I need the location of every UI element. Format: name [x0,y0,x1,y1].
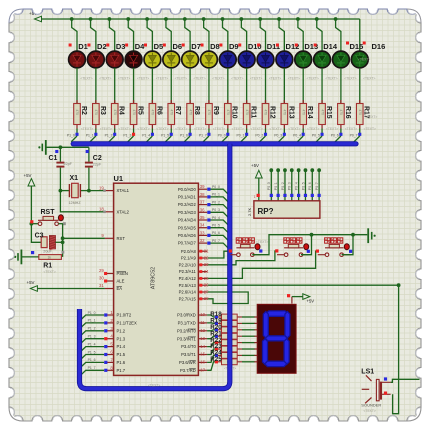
button1 mode key [236,244,260,257]
bus vertical right [80,144,230,389]
pin stub P2.3 [198,271,207,273]
svg-text:P3.1/TXD: P3.1/TXD [178,321,196,326]
ground symbol (crystal caps) [38,146,40,148]
svg-text:31: 31 [99,283,104,288]
wire tap diagonal P0_3 [279,136,285,142]
LED D12 [276,51,293,68]
wire D10 to R11 [246,68,248,104]
wire ground to R1 [22,256,39,258]
wire R14 to tap [302,129,304,137]
svg-text:P2.1/A9: P2.1/A9 [181,256,197,261]
square RP pin4 [283,194,286,197]
7seg pin stub 2 [254,322,257,324]
wire rail drop D11 [260,19,265,51]
svg-text:P0_5: P0_5 [212,224,220,228]
resistor R18 [215,314,242,320]
svg-text:D14: D14 [323,42,338,51]
wire RP pin2 [270,172,272,201]
svg-text:P1_5: P1_5 [161,134,169,138]
wire P3.6 to R24 [207,355,215,362]
wire RP pin7 [304,172,306,201]
power +5V arrow display [303,294,310,300]
resistor R8 [187,100,194,129]
wire P2.5 to sounder [207,285,398,414]
svg-text:D15: D15 [350,42,364,51]
svg-text:<TEXT>: <TEXT> [307,127,319,131]
junction rail dot 15 [334,17,338,21]
square button3 right pin [349,250,352,253]
LED D15 [333,51,350,68]
svg-text:XTAL2: XTAL2 [117,209,130,214]
svg-text:D7: D7 [191,42,201,51]
7seg segment B [285,312,290,338]
ground symbol (R1) [14,256,16,258]
svg-text:20uF: 20uF [43,250,52,254]
wire rail drop D14 [317,19,322,51]
ground symbol (buttons) [367,228,369,243]
svg-text:P0_2: P0_2 [255,134,263,138]
resistor R20 [215,327,242,333]
svg-text:C2: C2 [93,155,102,162]
wire rail drop D5 [147,19,152,51]
svg-text:21: 21 [204,249,209,254]
wire D13 to R14 [302,68,304,104]
svg-text:<TEXT>: <TEXT> [344,77,356,81]
square tap P1_0 [75,133,78,136]
svg-text:<TEXT>: <TEXT> [175,77,187,81]
wire P0.1 to bus [207,197,229,203]
square tap P1_3 [132,133,135,136]
square P2.3 pin [199,270,202,273]
square RP pin3 [277,194,280,197]
pin stub P1.4 [107,346,114,348]
pin stub P2.7 [198,298,207,300]
svg-text:P2.7/A15: P2.7/A15 [179,296,197,301]
svg-text:P1.7: P1.7 [117,368,126,373]
LED D14 origin square [314,44,317,47]
LED D4 [125,51,142,68]
square C2 pin [86,150,89,153]
wire P0.6 to bus [207,235,229,241]
junction dot RST net b [61,240,65,244]
square P1.7 pin [104,369,107,372]
svg-text:<TEXT>: <TEXT> [148,384,160,388]
junction rail dot 9 [221,17,225,21]
wire P3.2 to R20 [207,330,215,331]
resistor R17 [356,100,363,129]
svg-text:P0_6: P0_6 [308,182,312,190]
svg-text:<TEXT>: <TEXT> [364,409,376,413]
square RP pin6 [297,194,300,197]
svg-text:<TEXT>: <TEXT> [119,127,131,131]
junction dot C1 top [59,145,63,149]
wire tap diagonal P0_5 [316,136,322,142]
LED D10 [238,51,255,68]
junction dot RP pin3 [276,168,280,172]
junction dot sounder wire [397,283,401,287]
square tap P0_3 [283,133,286,136]
svg-text:R16: R16 [344,106,351,119]
square ALE pin [104,279,107,282]
square XTAL2 pin [103,211,106,214]
wire R16 to tap [340,129,342,137]
svg-text:P1_1: P1_1 [86,134,94,138]
svg-text:D16: D16 [372,42,386,51]
svg-text:R7: R7 [174,106,181,115]
svg-text:1: 1 [254,195,256,199]
wire sounder top terminal [391,379,420,382]
square sounder top pin [384,377,387,380]
wire EA to +5V [37,288,105,290]
svg-text:<TEXT>: <TEXT> [156,127,168,131]
wire P0.2 to bus [207,205,229,211]
wire tap diagonal P1_3 [128,136,134,142]
wire P3.1 to R19 [207,322,215,325]
wire R13 to tap [283,129,285,137]
wire tap diagonal P1_2 [109,136,115,142]
junction dot RP pin7 [304,168,308,172]
svg-text:P1_2: P1_2 [88,327,96,331]
square P0.0 pin [207,188,210,191]
junction dot RP pin6 [297,168,301,172]
svg-text:XTAL1: XTAL1 [117,188,130,193]
svg-text:P0_4: P0_4 [212,216,220,220]
resistor R1 [39,255,62,260]
junction rail dot 1 [70,17,74,21]
svg-text:X1: X1 [70,175,79,182]
svg-text:P0.5/AD5: P0.5/AD5 [178,225,197,230]
wire D4 to R5 [133,68,135,104]
7seg display body [257,304,296,373]
button3 speed-down key [325,244,349,257]
wire rail drop D8 [204,19,209,51]
pin stub P3.6 [198,361,207,363]
wire D2 to R3 [95,68,97,104]
pin stub P1.6 [107,361,114,363]
svg-text:R8: R8 [193,106,200,115]
svg-text:32: 32 [200,238,205,243]
LED D2 [87,51,104,68]
resistor R4 [111,100,118,129]
square button1 right pin [259,249,262,252]
resistor R2 [74,100,81,129]
svg-text:25: 25 [204,276,209,281]
square P2.0 pin [199,250,202,253]
pin stub P3.2 [198,330,207,332]
svg-text:<TEXT>: <TEXT> [365,115,377,119]
svg-text:P1_6: P1_6 [180,134,188,138]
svg-text:P3.5/T1: P3.5/T1 [181,352,196,357]
svg-text:<TEXT>: <TEXT> [232,127,244,131]
svg-text:<TEXT>: <TEXT> [193,77,205,81]
wire P2.1 to button1 [207,251,230,258]
wire P3.7 to R25 [207,362,215,371]
svg-text:R5: R5 [136,106,143,115]
svg-text:D5: D5 [154,42,164,51]
junction dot RST net a [61,236,65,240]
wire D9 to R10 [227,68,229,104]
junction dot RP pin5 [290,168,294,172]
wire tap P1_2 to chip [80,331,105,337]
svg-text:P2.6/A14: P2.6/A14 [179,290,197,295]
svg-text:RST: RST [117,236,126,241]
svg-text:C3: C3 [35,233,44,240]
svg-text:P0_0: P0_0 [212,185,220,189]
junction dot rail b3 [351,233,355,237]
svg-text:<TEXT>: <TEXT> [250,77,262,81]
svg-text:P2.2/A10: P2.2/A10 [179,262,197,267]
pin stub ALE [105,280,114,282]
wire D15 to R16 [340,68,342,104]
junction rail dot 7 [183,17,187,21]
pin stub P3.3 [198,338,207,340]
wire R15 to tap [321,129,323,137]
svg-text:P1.6: P1.6 [117,360,126,365]
resistor R10 [225,100,232,129]
wire tap diagonal P0_0 [222,136,228,142]
svg-text:RST: RST [41,209,56,216]
wire P3.4 to R22 [207,343,215,347]
square PSEN pin [104,272,107,275]
svg-text:<TEXT>: <TEXT> [326,127,338,131]
7seg common stub [291,297,293,304]
square button2 left pin [275,249,278,252]
square R22 pin [215,341,218,344]
square RP pin7 [304,194,307,197]
wire C2 top lead [88,147,90,162]
svg-text:P2.5/A13: P2.5/A13 [179,283,197,288]
svg-text:15: 15 [200,352,205,357]
LED D7 [182,51,199,68]
LED D16 origin square [363,42,366,45]
wire RST button left stub [31,223,38,225]
svg-text:36: 36 [200,207,205,212]
7seg segment F [263,312,268,338]
wire tap P1_6 to chip [80,362,105,368]
square P1.1 pin [104,321,107,324]
wire tap P1_0 to chip [80,315,105,321]
svg-text:P1_0: P1_0 [67,134,75,138]
junction dot rail b2 [310,233,314,237]
svg-text:33: 33 [200,230,205,235]
square tap P0_6 [339,133,342,136]
svg-text:<TEXT>: <TEXT> [269,77,281,81]
wire button3 right stub [343,254,350,256]
svg-text:P1_6: P1_6 [88,358,96,362]
svg-text:26: 26 [204,283,209,288]
LED D5 origin square [144,44,147,47]
square P0.6 pin [207,234,210,237]
wire R17 to tap [359,129,361,137]
square P2.5 pin [199,284,202,287]
pin stub P0.7 [198,242,207,244]
wire P3.0 to R18 [207,315,215,317]
wire D1 to R2 [76,68,78,104]
wire rail drop D15 [336,19,341,51]
svg-text:470: 470 [207,110,211,116]
square P1.0 pin [104,313,107,316]
7seg pin stub 4 [254,335,257,337]
svg-text:P1.0/T2: P1.0/T2 [117,313,132,318]
svg-text:P1.4: P1.4 [117,344,126,349]
svg-text:470: 470 [132,110,136,116]
wire P2.2 to button2 [207,251,276,265]
svg-text:12MHZ: 12MHZ [69,201,82,205]
pin stub P2.0 [198,250,207,252]
wire R24 to display [242,354,255,356]
capacitor C3 plate1 [41,237,47,248]
svg-text:P0_7: P0_7 [350,134,358,138]
power +5V arrow RP [255,170,262,178]
svg-text:P0.3/AD3: P0.3/AD3 [178,210,197,215]
wire P0.4 to bus [207,220,229,226]
wire tap diagonal P1_7 [203,136,209,142]
svg-text:P0.1/AD1: P0.1/AD1 [178,195,197,200]
pin stub XTAL1 [105,190,114,192]
square R21 pin [215,335,218,338]
svg-text:29: 29 [99,268,104,273]
wire P2.6 [207,292,248,304]
svg-text:R10: R10 [231,106,238,119]
wire tap P1_3 to chip [80,339,105,345]
svg-text:R6: R6 [155,106,162,115]
svg-text:<TEXT>: <TEXT> [118,77,130,81]
wire D8 to R9 [208,68,210,104]
svg-text:P0_3: P0_3 [288,182,292,190]
wire P0.3 to bus [207,212,229,218]
svg-text:+5V: +5V [307,299,315,304]
power +5V arrow top-left [35,16,42,22]
svg-text:470: 470 [245,110,249,116]
LED D3 origin square [106,44,109,47]
LED D7 origin square [182,44,185,47]
svg-text:R2: R2 [80,106,87,115]
wire R8 to tap [189,129,191,137]
svg-text:R25: R25 [210,356,222,363]
LED D12 origin square [276,44,279,47]
pin stub P1.7 [107,369,114,371]
resistor R5 [130,100,137,129]
svg-text:470: 470 [94,110,98,116]
svg-text:P0.4/AD4: P0.4/AD4 [178,218,197,223]
wire R10 to tap [227,129,229,137]
wire D12 to R13 [283,68,285,104]
square RP pin1 [257,194,260,197]
resistor R23 [215,346,242,352]
svg-text:470: 470 [226,110,230,116]
wire RST to chip [63,237,105,239]
LED D11 origin square [257,44,260,47]
wire tap diagonal P1_5 [165,136,171,142]
square button2 right pin [307,250,310,253]
bus P1/P0 horizontal top [73,141,356,146]
pin stub PSEN [105,273,114,275]
svg-text:22: 22 [204,255,209,260]
junction rail dot 3 [108,17,112,21]
7seg segment A [266,311,288,316]
wire D5 to R6 [151,68,153,104]
square XTAL1 pin [103,189,106,192]
svg-text:P1_7: P1_7 [88,366,96,370]
svg-text:470: 470 [320,110,324,116]
square P2.2 pin [199,263,202,266]
LED D8 origin square [201,44,204,47]
pin stub P3.1 [198,322,207,324]
svg-text:470: 470 [169,110,173,116]
pin stub P2.5 [198,284,207,286]
pin stub P1.0 [107,314,114,316]
svg-text:P0_5: P0_5 [301,182,305,190]
svg-text:<TEXT>: <TEXT> [80,77,92,81]
pin stub P0.5 [198,227,207,229]
svg-text:R4: R4 [118,106,125,115]
wire button1 right stub [254,254,261,256]
LED D13 [295,51,312,68]
wire tap P1_4 to chip [80,347,105,353]
pin stub RST [105,237,114,239]
LED D9 [219,51,236,68]
wire XTAL1 to chip [89,190,105,192]
svg-text:13: 13 [200,336,205,341]
svg-text:P0_6: P0_6 [212,231,220,235]
svg-text:P3.0/RXD: P3.0/RXD [177,313,196,318]
wire C3 right lead [55,241,62,243]
square R24 pin [215,354,218,357]
square tap P0_4 [302,133,305,136]
svg-text:+5V: +5V [251,163,259,168]
svg-text:R1: R1 [43,263,52,270]
pin stub P0.1 [198,196,207,198]
wire rail drop D9 [223,19,228,51]
wire rail drop D2 [91,19,96,51]
square tap P0_7 [358,133,361,136]
wire D7 to R8 [189,68,191,104]
resistor R16 [338,100,345,129]
wire tap diagonal P0_2 [260,136,266,142]
LED D4 origin square [125,44,128,47]
wire tap diagonal P0_7 [354,136,360,142]
svg-text:R3: R3 [99,106,106,115]
pin stub P3.5 [198,354,207,356]
wire P0.5 to bus [207,228,229,234]
wire C1 bottom lead [59,168,61,191]
wire R5 to tap [133,129,135,137]
wire R12 to tap [265,129,267,137]
chip U1 AT89C52 body [114,183,199,375]
wire tap P1_5 to chip [80,355,105,361]
svg-text:P1.2: P1.2 [117,328,126,333]
wire RP pin5 [291,172,293,201]
resistor R22 [215,340,242,346]
7seg pin stub 1 [254,316,257,318]
square P1.2 pin [104,329,107,332]
square P0.4 pin [207,218,210,221]
junction rail dot 6 [164,17,168,21]
square RP pin5 [290,194,293,197]
wire tap diagonal P1_0 [71,136,77,142]
svg-text:R12: R12 [268,106,275,119]
svg-text:P0_3: P0_3 [274,134,282,138]
resistor R19 [215,321,242,327]
svg-text:<TEXT>: <TEXT> [364,127,376,131]
wire +5V down to C3/RST [31,186,41,242]
square tap P1_7 [207,133,210,136]
svg-text:39: 39 [200,184,205,189]
square RP pin9 [318,194,321,197]
square R19 pin [215,322,218,325]
svg-text:470: 470 [283,110,287,116]
sounder LS1 [362,375,391,403]
